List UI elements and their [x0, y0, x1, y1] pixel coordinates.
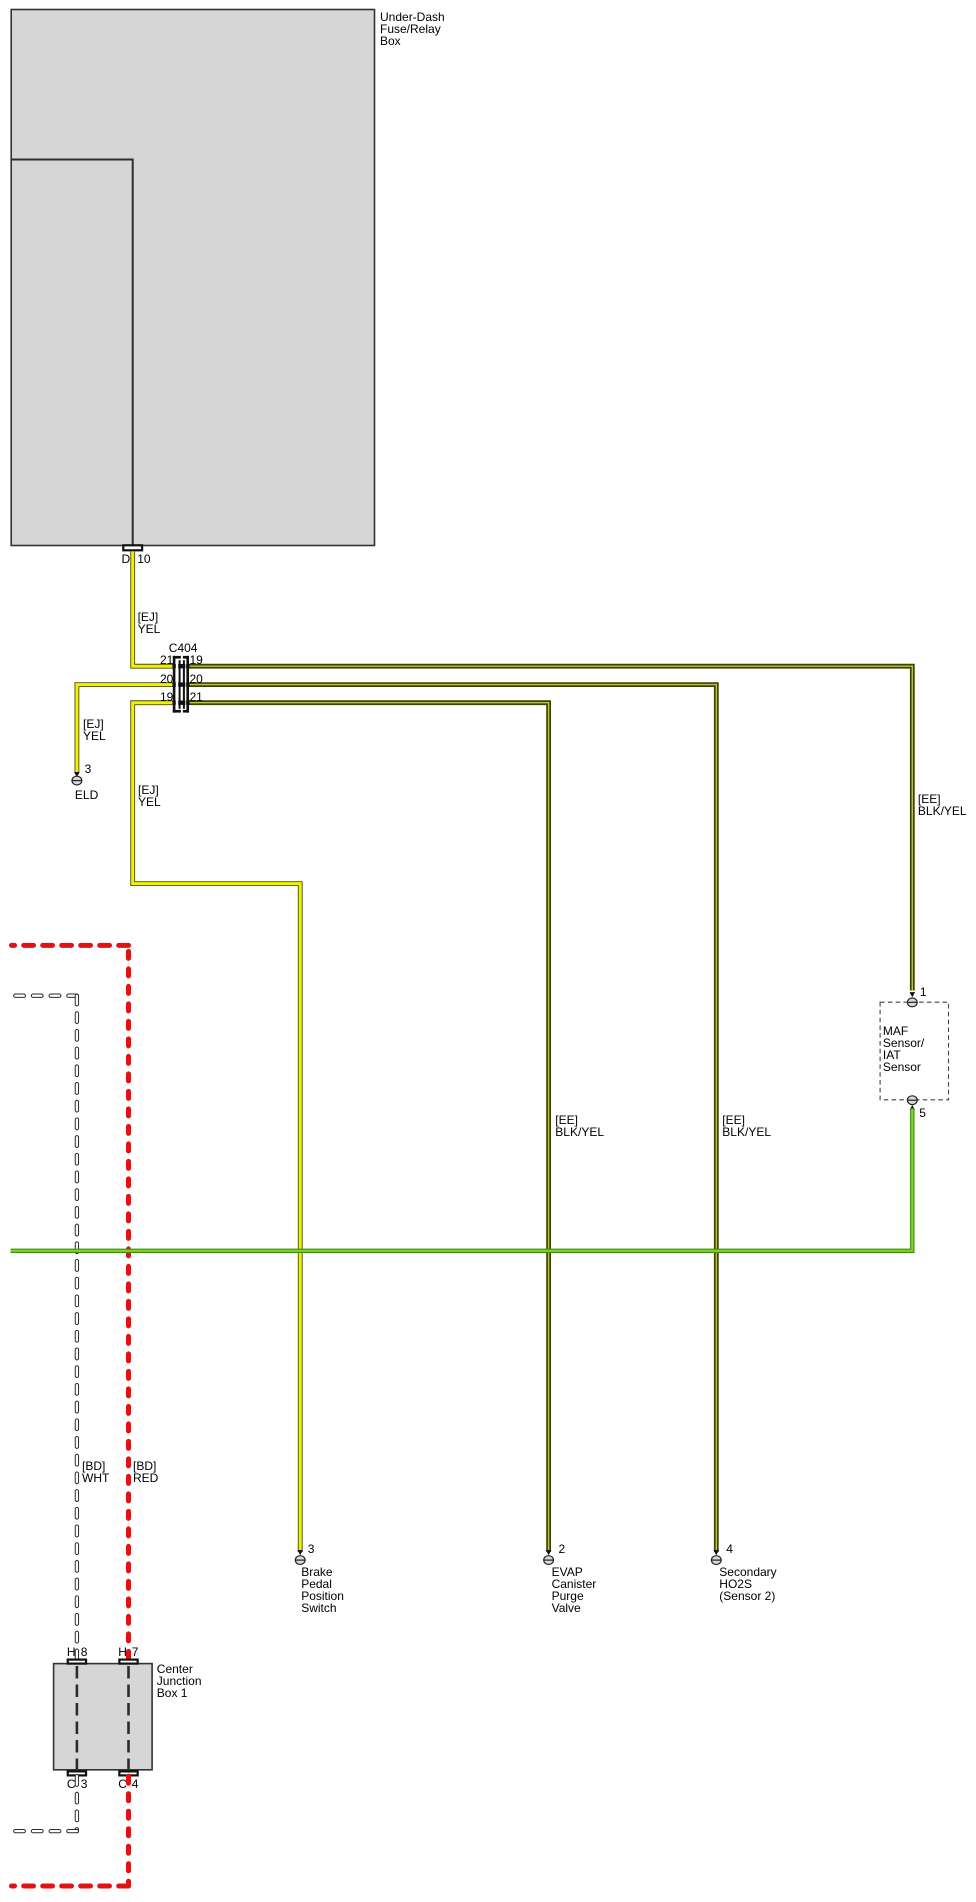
- label H of pin H 8: [67, 1646, 76, 1658]
- pin label 4 Secondary HO2S: [726, 1543, 733, 1555]
- terminal pin 4 Secondary HO2S: [711, 1556, 721, 1565]
- wire [EE] BLK/YEL from C404 pin 20 to Secondary HO2S pin 4: [188, 685, 716, 1552]
- connector D 10 terminal: [122, 544, 143, 551]
- label [EE] BLK/YEL on EVAP wire: [555, 1114, 604, 1138]
- terminal pin 3 ELD: [72, 776, 82, 785]
- terminal pin 1 MAF sensor: [907, 998, 917, 1007]
- label D of pin D 10: [122, 553, 131, 565]
- wire [BD] WHT dashed from left edge down to Center Junction Box H8: [12, 996, 77, 1659]
- pin label 1 MAF sensor: [920, 986, 927, 998]
- label 3 of pin C 3: [81, 1778, 88, 1790]
- label 7 of pin H 7: [132, 1646, 139, 1658]
- MAF Sensor/IAT Sensor box (dashed): [880, 1002, 948, 1100]
- connector H 7 terminal: [118, 1659, 139, 1665]
- arrow into EVAP valve pin 2: [546, 1550, 552, 1555]
- connector H 8 terminal: [67, 1659, 88, 1665]
- pin label 3 brake pedal switch: [308, 1543, 315, 1555]
- terminal pin 3 Brake Pedal Position Switch: [295, 1556, 305, 1565]
- pin label 20 C404 left row2: [152, 673, 173, 685]
- wire [EJ] YEL from C404 pin 19 to Brake Pedal Position Switch: [133, 703, 301, 1552]
- pin label 21 C404 left row1: [152, 654, 173, 666]
- label [EJ] YEL below D10: [138, 611, 161, 635]
- wire inside junction box (black dashed) H7 to C4: [127, 1666, 130, 1769]
- terminal pin 2 EVAP valve: [544, 1556, 554, 1565]
- label MAF Sensor/IAT Sensor: [883, 1025, 924, 1073]
- wire GRN from MAF sensor pin 5 to left edge: [11, 1109, 913, 1251]
- connector C404 symbol: [172, 656, 189, 713]
- label [EJ] YEL on brake pedal wire: [138, 784, 161, 808]
- pin label 19 C404 left row3: [152, 691, 173, 703]
- wire [EE] BLK/YEL from C404 pin 21 to EVAP valve pin 2: [188, 703, 549, 1552]
- label [EE] BLK/YEL on HO2S wire: [722, 1114, 771, 1138]
- label [EJ] YEL on ELD wire: [83, 718, 106, 742]
- arrow into ELD terminal: [74, 772, 80, 777]
- wire RED dashed from C4 to bottom left edge: [12, 1776, 129, 1886]
- wire inside junction box (black dashed) H8 to C3: [76, 1666, 79, 1769]
- label C404: [169, 642, 198, 654]
- label Under-Dash Fuse/Relay Box: [380, 11, 445, 47]
- label 8 of pin H 8: [81, 1646, 88, 1658]
- label Center Junction Box 1: [157, 1663, 202, 1699]
- pin label 5 MAF sensor: [919, 1107, 926, 1119]
- label 10 of pin D 10: [137, 553, 150, 565]
- wire: dark wire inside fuse box from left edge to D10: [11, 160, 133, 545]
- pin label 3 ELD: [85, 763, 92, 775]
- pin label 2 EVAP valve: [559, 1543, 566, 1555]
- label [EE] BLK/YEL right edge wire: [918, 793, 967, 817]
- arrow into Secondary HO2S pin 4: [714, 1550, 720, 1555]
- label EVAP Canister Purge Valve: [552, 1566, 597, 1614]
- label Secondary HO2S (Sensor 2): [719, 1566, 776, 1602]
- wire [BD] RED dashed from left edge down to Center Junction Box H7: [12, 945, 129, 1658]
- wire [EJ] YEL from C404 pin 20 to ELD: [77, 685, 174, 773]
- label [BD] RED: [133, 1460, 158, 1484]
- Center Junction Box 1 outline: [54, 1664, 153, 1770]
- connector C 4 terminal: [118, 1770, 139, 1776]
- pin label 20 C404 right row2: [190, 673, 203, 685]
- arrow into MAF sensor pin 5: [910, 1105, 916, 1110]
- label H of pin H 7: [118, 1646, 127, 1658]
- Under-Dash Fuse/Relay Box outline: [11, 10, 374, 546]
- wire [EJ] YEL from D10 to C404 pin 21: [133, 551, 174, 666]
- label Brake Pedal Position Switch: [301, 1566, 344, 1614]
- connector C 3 terminal: [67, 1770, 88, 1776]
- label [BD] WHT: [82, 1460, 109, 1484]
- pin label 19 C404 right row1: [190, 654, 203, 666]
- label C of pin C 3: [67, 1778, 76, 1790]
- label 4 of pin C 4: [132, 1778, 139, 1790]
- terminal pin 5 MAF sensor: [907, 1096, 917, 1105]
- wire [EE] BLK/YEL from C404 pin 19 to MAF sensor pin 1: [188, 666, 912, 990]
- label C of pin C 4: [118, 1778, 127, 1790]
- wire WHT dashed from C3 to bottom left edge: [12, 1776, 77, 1831]
- pin label 21 C404 right row3: [190, 691, 203, 703]
- arrow into Brake Pedal Position Switch pin 3: [297, 1550, 303, 1555]
- arrow into MAF sensor pin 1: [910, 992, 916, 997]
- label ELD: [75, 789, 98, 801]
